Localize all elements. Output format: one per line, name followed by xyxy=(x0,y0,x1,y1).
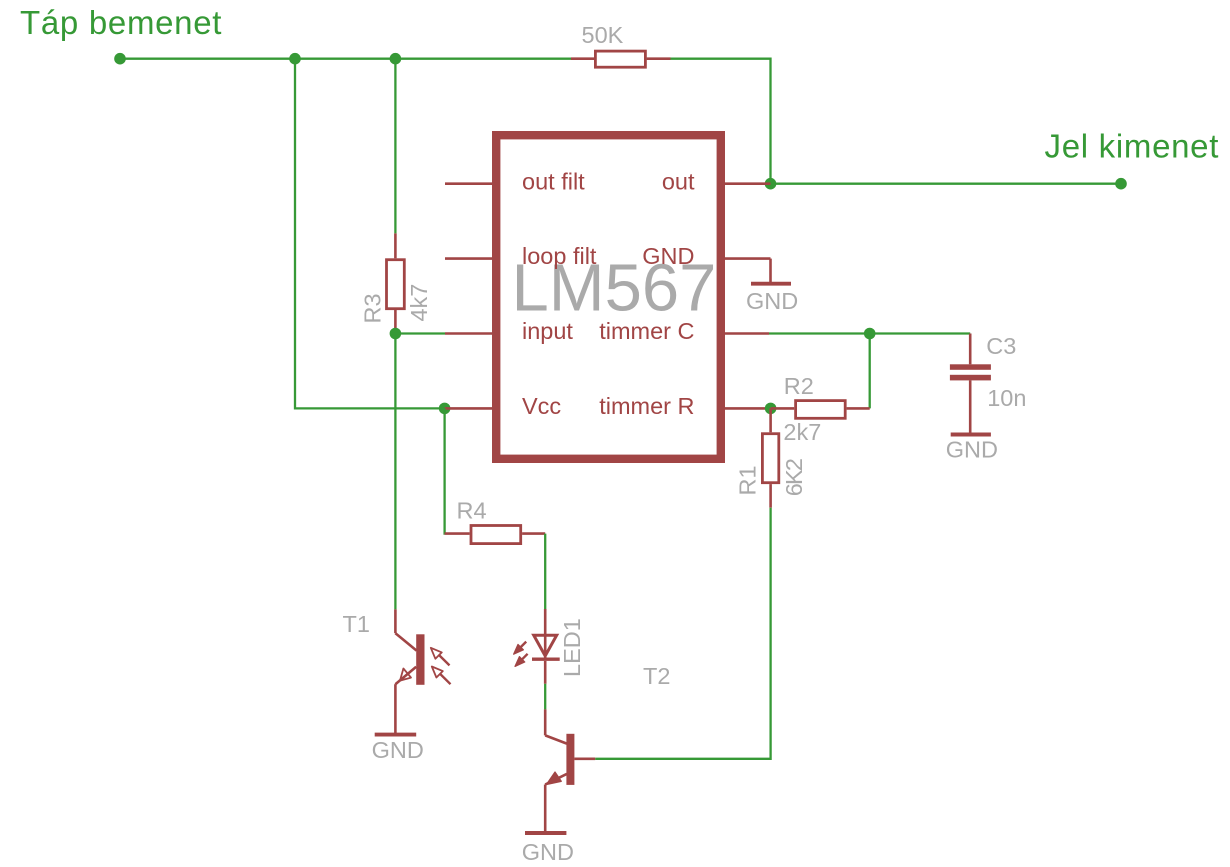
svg-text:out filt: out filt xyxy=(522,168,585,194)
wire timmer C row xyxy=(769,332,970,334)
LED LED1 xyxy=(532,609,560,684)
svg-text:LED1: LED1 xyxy=(559,618,585,677)
svg-text:Jel kimenet: Jel kimenet xyxy=(1045,128,1220,165)
wire branch down to R2 xyxy=(869,334,871,409)
svg-text:C3: C3 xyxy=(986,333,1016,359)
junction dot top rail x395 xyxy=(390,53,402,65)
LED1 light arrow 2 xyxy=(515,654,528,667)
svg-text:timmer C: timmer C xyxy=(599,318,694,344)
resistor 50K xyxy=(571,51,671,67)
ground symbol at C3 xyxy=(951,433,991,437)
svg-text:R3: R3 xyxy=(359,293,385,323)
svg-text:input: input xyxy=(522,318,573,344)
pin 4 Vcc lead xyxy=(445,407,492,410)
wire input dot down to T1 xyxy=(394,334,396,610)
pin 3 input lead xyxy=(445,332,492,335)
svg-text:6K2: 6K2 xyxy=(781,459,807,496)
svg-text:GND: GND xyxy=(746,288,798,314)
svg-text:timmer R: timmer R xyxy=(599,393,694,419)
pin 8 out lead xyxy=(725,182,771,185)
ground symbol at T2 xyxy=(525,831,566,835)
svg-text:loop filt: loop filt xyxy=(522,243,597,269)
junction dot input row xyxy=(390,328,402,340)
resistor R3 xyxy=(387,233,405,333)
junction dot vcc xyxy=(439,403,451,415)
resistor R4 xyxy=(445,526,546,544)
wire LED1 to T2 xyxy=(544,684,546,710)
wire vcc rail left xyxy=(295,59,445,409)
svg-text:GND: GND xyxy=(642,243,694,269)
T1 light arrow 1 xyxy=(431,648,450,666)
svg-text:T2: T2 xyxy=(643,663,670,689)
svg-text:2k7: 2k7 xyxy=(783,419,821,445)
svg-text:GND: GND xyxy=(522,839,574,865)
junction dot top rail x295 xyxy=(289,53,301,65)
wire vcc dot down to R4 xyxy=(443,408,445,533)
wire top rail xyxy=(120,58,571,60)
ground symbol at IC GND pin xyxy=(751,259,791,284)
svg-text:R2: R2 xyxy=(784,373,814,399)
resistor R1 xyxy=(762,408,778,507)
svg-text:Vcc: Vcc xyxy=(522,393,561,419)
pin 2 loop filt lead xyxy=(445,257,492,260)
svg-text:out: out xyxy=(662,168,695,194)
junction dot timmer C branch xyxy=(864,328,876,340)
pin 5 timmer R lead xyxy=(725,407,771,410)
svg-text:Táp bemenet: Táp bemenet xyxy=(20,4,222,41)
op-amp IC U1 LM567 body xyxy=(496,135,721,459)
transistor T2 xyxy=(545,709,595,831)
T1 light arrow 2 xyxy=(432,667,451,685)
wire out row xyxy=(771,183,1122,185)
wire R4 to LED1 xyxy=(544,534,546,609)
pin 6 timmer C lead xyxy=(725,332,769,335)
svg-text:R4: R4 xyxy=(457,498,487,524)
svg-text:GND: GND xyxy=(372,737,424,763)
LED1 light arrow 1 xyxy=(514,642,527,655)
capacitor C3 leads xyxy=(969,334,972,433)
svg-text:R1: R1 xyxy=(735,465,761,495)
svg-text:GND: GND xyxy=(946,437,998,463)
junction dot timmer R xyxy=(765,403,777,415)
wire input row xyxy=(395,332,445,334)
capacitor C3 xyxy=(950,364,991,380)
node input terminal dot xyxy=(114,53,126,65)
svg-text:4k7: 4k7 xyxy=(406,284,432,322)
svg-text:10n: 10n xyxy=(987,385,1026,411)
wire R1 to T2 base xyxy=(595,508,770,759)
phototransistor T1 xyxy=(395,609,424,733)
pin 1 out filt lead xyxy=(445,182,492,185)
resistor R2 xyxy=(771,401,870,419)
ground symbol at T1 xyxy=(375,733,417,737)
node output terminal dot xyxy=(1115,178,1127,190)
svg-text:50K: 50K xyxy=(582,22,624,48)
wire top to R3 xyxy=(394,59,396,234)
svg-text:T1: T1 xyxy=(343,611,370,637)
junction dot out xyxy=(765,178,777,190)
pin 7 GND lead xyxy=(725,257,771,260)
wire 50K to out corner xyxy=(671,59,771,184)
